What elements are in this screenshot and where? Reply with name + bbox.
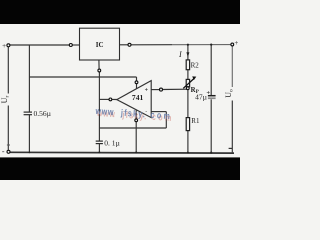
wire: right rail upper xyxy=(231,46,233,87)
wire: 47u branch lower xyxy=(210,99,212,152)
svg-text:741: 741 xyxy=(132,93,144,102)
wire: 47u branch upper xyxy=(210,45,212,95)
junction dot: R1 bottom xyxy=(187,152,189,154)
terminal circle: non-inverting input xyxy=(160,88,163,91)
terminal circle: input - (bottom left) xyxy=(7,150,10,153)
wire: Rp to R1 xyxy=(187,87,189,118)
wire: non-inverting input circle to divider xyxy=(162,88,188,90)
wire: inverting input drop to feedback bus xyxy=(165,112,167,128)
wire: bottom rail xyxy=(9,151,234,154)
svg-text:0.56µ: 0.56µ xyxy=(34,109,52,118)
terminal circle: input + xyxy=(7,44,10,47)
capacitor C3 47u electrolytic xyxy=(195,89,215,101)
terminal circle: divider tap (Rp wiper junction) xyxy=(186,87,189,90)
wire: non-inverting input stub xyxy=(151,89,159,91)
wire: top rail left segment (input + to IC) xyxy=(10,44,69,46)
svg-text:+: + xyxy=(234,39,238,47)
terminal circle: op-amp output xyxy=(109,98,112,101)
wire: inverting input pin to the right xyxy=(151,111,166,113)
wire: top rail right segment xyxy=(131,44,172,46)
junction dot: 47u top xyxy=(210,44,212,46)
svg-text:+: + xyxy=(2,42,6,50)
current label I with arrow xyxy=(178,50,189,59)
label: output minus polarity xyxy=(229,147,233,149)
wire: V+ pin drop to circle xyxy=(136,77,138,81)
svg-text:I: I xyxy=(178,50,182,59)
wire: right rail lower xyxy=(231,101,233,153)
watermark blue layer xyxy=(94,106,172,122)
IC box U1 xyxy=(80,28,120,60)
wire: left rail upper xyxy=(7,46,9,93)
svg-text:R1: R1 xyxy=(191,117,200,125)
svg-text:0. 1µ: 0. 1µ xyxy=(104,139,120,148)
junction dot: V- ground xyxy=(135,151,137,153)
wire: top rail IC-to-circle xyxy=(120,44,129,46)
capacitor C2 0.1u xyxy=(96,139,121,148)
svg-text:IC: IC xyxy=(96,41,104,49)
wire: R2 to Rp xyxy=(187,70,189,80)
junction dot: divider top xyxy=(187,44,189,46)
terminal circle: IC output side xyxy=(128,43,131,46)
wire: top rail circle-to-IC xyxy=(72,44,79,46)
svg-text:+: + xyxy=(145,87,149,93)
terminal circle: IC input side xyxy=(69,44,72,47)
resistor R1 xyxy=(186,117,200,130)
wire: feedback bus y=128 xyxy=(99,127,166,129)
top black bar xyxy=(0,0,240,24)
watermark red layer xyxy=(96,108,174,124)
terminal circle: IC ground pin xyxy=(98,69,101,72)
terminal circle: output + xyxy=(231,43,234,46)
wire: 0.1u cap lower lead xyxy=(98,144,100,153)
svg-text:R2: R2 xyxy=(191,61,200,69)
wire: op-amp V- pin down from triangle xyxy=(135,110,137,119)
svg-text:-: - xyxy=(2,147,5,156)
terminal circle: op-amp V+ pin xyxy=(135,81,138,84)
tick on left rail xyxy=(7,144,10,146)
wire: divider branch top (rail to R2) xyxy=(187,45,189,60)
wire: V- pin circle to ground rail xyxy=(135,122,137,153)
wire: top rail right faded segment xyxy=(172,44,231,46)
bottom black bar xyxy=(0,157,240,180)
wire: IC ground pin circle to node column xyxy=(98,72,100,128)
terminal circle: op-amp V- pin xyxy=(135,119,138,122)
wire: op-amp output circle to apex xyxy=(112,98,117,100)
wire: input capacitor branch lower xyxy=(28,115,30,153)
junction dot: 0.1u ground xyxy=(98,151,100,153)
resistor R2 xyxy=(186,60,199,70)
wire: input capacitor branch upper (x=29.4) xyxy=(28,45,30,112)
wire: left rail lower xyxy=(7,106,9,151)
wire: 0.1u cap upper lead xyxy=(98,128,100,141)
wire: V+ pin circle to triangle xyxy=(136,84,138,89)
wire: op-amp output stub from column xyxy=(99,98,109,100)
wire: R1 to ground rail xyxy=(187,131,189,153)
op-amp 741 triangle xyxy=(117,81,151,118)
junction dot: input cap ground xyxy=(29,152,31,154)
wire: IC ground pin down to circle xyxy=(98,60,100,69)
potentiometer Rp xyxy=(183,76,199,95)
capacitor C1 0.56u xyxy=(24,109,52,118)
svg-text:P: P xyxy=(196,90,199,95)
junction dot: 47u bottom xyxy=(210,152,212,154)
wire: op-amp V+ supply wire y=77 xyxy=(29,76,136,78)
